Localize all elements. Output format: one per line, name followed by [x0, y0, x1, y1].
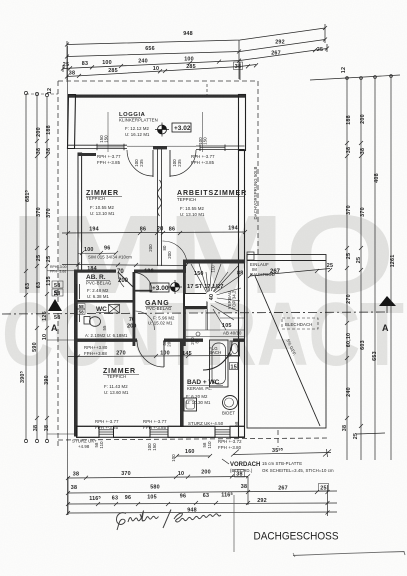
blechdach top dim line [248, 268, 332, 278]
door zimmer-gang arc with horizontal leaf [134, 273, 153, 292]
dim row 184/196 [62, 263, 188, 268]
paper edge curve [293, 552, 405, 556]
construction line left [67, 46, 69, 515]
lower flight treads [209, 299, 238, 311]
left dimension chains [24, 91, 76, 442]
title block [233, 495, 235, 552]
door hinge circle [196, 332, 200, 336]
loggia bottom wall right window segment [196, 145, 245, 147]
ticks row3 [61, 67, 65, 71]
left wall windows 58 [77, 284, 80, 322]
top dimension block [61, 24, 329, 80]
WC right wall [133, 272, 136, 346]
window 58/110 left in bottom wall [99, 427, 114, 437]
+3.00 level [150, 280, 182, 294]
row C [68, 503, 337, 504]
section arrow left [48, 299, 62, 311]
vordach text [222, 459, 229, 464]
washbasin right [230, 341, 240, 356]
AB.R door leaf diagonal [118, 272, 133, 287]
level marker +3.02 [155, 123, 191, 137]
section arrow right [379, 296, 396, 306]
section line A-A dash dot [2, 312, 387, 314]
toilet bad [223, 396, 238, 410]
chain top circles [24, 91, 27, 94]
einlauf drain box [247, 252, 254, 260]
scan noise overlay [0, 0, 1, 1]
window 58/110 right in bottom wall [215, 427, 230, 437]
row D [68, 512, 337, 513]
dim line 38/285/10/285/38 [67, 65, 256, 77]
stairwell dark bottom edge [185, 306, 208, 309]
stair fan rays [191, 264, 209, 297]
row B [68, 491, 337, 493]
building right wall [239, 95, 246, 151]
left boxed 58 labels [52, 281, 85, 321]
small sink left [184, 398, 197, 411]
dim line 25/83/100/240/100/267/25 [63, 49, 327, 69]
right dimension chains [310, 75, 400, 460]
160 dim [175, 454, 212, 458]
dim row 270/100/145 [68, 354, 240, 359]
step wall loggia to zimmer [78, 153, 96, 156]
BAD left wall [180, 340, 184, 427]
dim line 656/292 [67, 40, 325, 57]
loggia top wall [68, 95, 246, 98]
AB.R / WC divider [77, 300, 134, 303]
wall AB.R top [76, 270, 116, 273]
verticals [67, 477, 69, 515]
stairwell void box [185, 294, 208, 307]
GANG bottom wall left [77, 339, 138, 342]
drop from 38 box to plan [239, 62, 241, 80]
signature handwriting [117, 510, 222, 531]
15 box [230, 363, 238, 370]
loggia bottom wall left window segment [68, 144, 128, 146]
left wall upper rooms [78, 153, 82, 271]
WC door arc [136, 311, 155, 330]
door GANG-BAD arc [203, 341, 232, 370]
section break squiggle on central wall [158, 180, 162, 216]
small door arc at central wall bottom [163, 241, 187, 260]
window 100/150 center in bottom wall [150, 427, 168, 437]
row A [68, 477, 248, 479]
ticks row1 [65, 43, 69, 47]
left chain labels (rotated) [20, 88, 67, 431]
bottom wall faces [77, 426, 245, 437]
vordach dim 35.95 [231, 449, 331, 457]
central wall between zimmer/arbeitszimmer [157, 149, 159, 266]
loggia bottom wall center pier [153, 146, 167, 149]
bathtub [210, 340, 229, 387]
ticks row2 [65, 55, 69, 59]
shaft duct with X [109, 305, 120, 314]
lintel line across door openings [127, 145, 153, 147]
GANG bottom wall right [164, 339, 203, 342]
toilet [84, 317, 90, 325]
top dim labels [63, 31, 323, 77]
dashed roof overhang outline [58, 81, 330, 447]
kink vertical [238, 40, 240, 79]
right connector vertical [324, 24, 326, 43]
left connector vertical [66, 41, 68, 80]
door GANG-ZIMMER2 arc [137, 340, 164, 367]
door loggia-zimmer arc [127, 150, 153, 176]
watermark IMMO [2, 192, 404, 385]
ticks row4 [65, 75, 69, 79]
dim row 194/86/20/86/194 [62, 230, 247, 235]
door loggia-arbeitszimmer arc [170, 150, 196, 176]
right chain labels (rotated) [341, 67, 396, 439]
tick marks left chains [35, 139, 39, 143]
dim line 948 [67, 28, 325, 45]
bottom exterior wall segments (hollow) [77, 426, 100, 437]
BAD top wall right piece [233, 339, 244, 342]
left wall lower [74, 270, 78, 437]
stair left wall [183, 262, 186, 346]
blechdach label [282, 318, 318, 329]
loggia left wall [68, 95, 76, 149]
roof slope diagonal [255, 276, 320, 426]
